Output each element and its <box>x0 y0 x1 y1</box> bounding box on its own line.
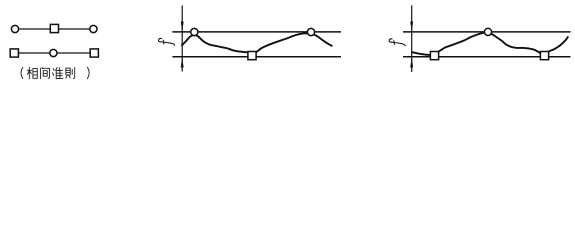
arrowhead up at bottom line (middle) <box>181 57 184 68</box>
node circle high point B (middle) <box>307 28 314 35</box>
node square low point left (right) <box>430 52 438 60</box>
node circle row1 right <box>90 25 97 32</box>
label f (middle) <box>158 38 174 45</box>
node square low point right (right) <box>540 52 548 60</box>
wire top reference line (right) <box>403 31 571 33</box>
wire row1 left legend <box>15 28 93 30</box>
label (相间准则) caption <box>21 67 89 79</box>
） <box>87 67 89 78</box>
node circle high point (right) <box>484 28 491 35</box>
wire dimension line f (right) <box>411 5 413 72</box>
wire dimension line f (middle) <box>181 6 183 72</box>
准 <box>53 68 63 79</box>
则 <box>66 67 75 78</box>
arrowhead down at top line (middle) <box>181 22 184 32</box>
node circle row2 middle <box>50 49 57 56</box>
wire profile curve (right) <box>412 32 568 55</box>
arrowhead down at top line (right) <box>410 22 413 32</box>
wire bottom reference line (middle) <box>172 56 341 58</box>
wire bottom reference line (right) <box>403 56 571 58</box>
相 <box>27 67 32 79</box>
arrowhead up at bottom line (right) <box>410 57 413 68</box>
label f (right) <box>389 39 405 46</box>
wire profile curve (middle) <box>181 33 332 53</box>
wire row2 left legend <box>14 52 94 54</box>
间 <box>41 67 50 78</box>
node square low point (middle) <box>248 52 256 60</box>
node square row1 middle <box>50 24 58 32</box>
node circle row1 left <box>11 25 18 32</box>
wire top reference line (middle) <box>172 31 341 33</box>
node circle high point A (middle) <box>191 28 198 35</box>
node square row2 left <box>10 49 18 57</box>
node square row2 right <box>90 49 98 57</box>
（ <box>21 67 23 78</box>
